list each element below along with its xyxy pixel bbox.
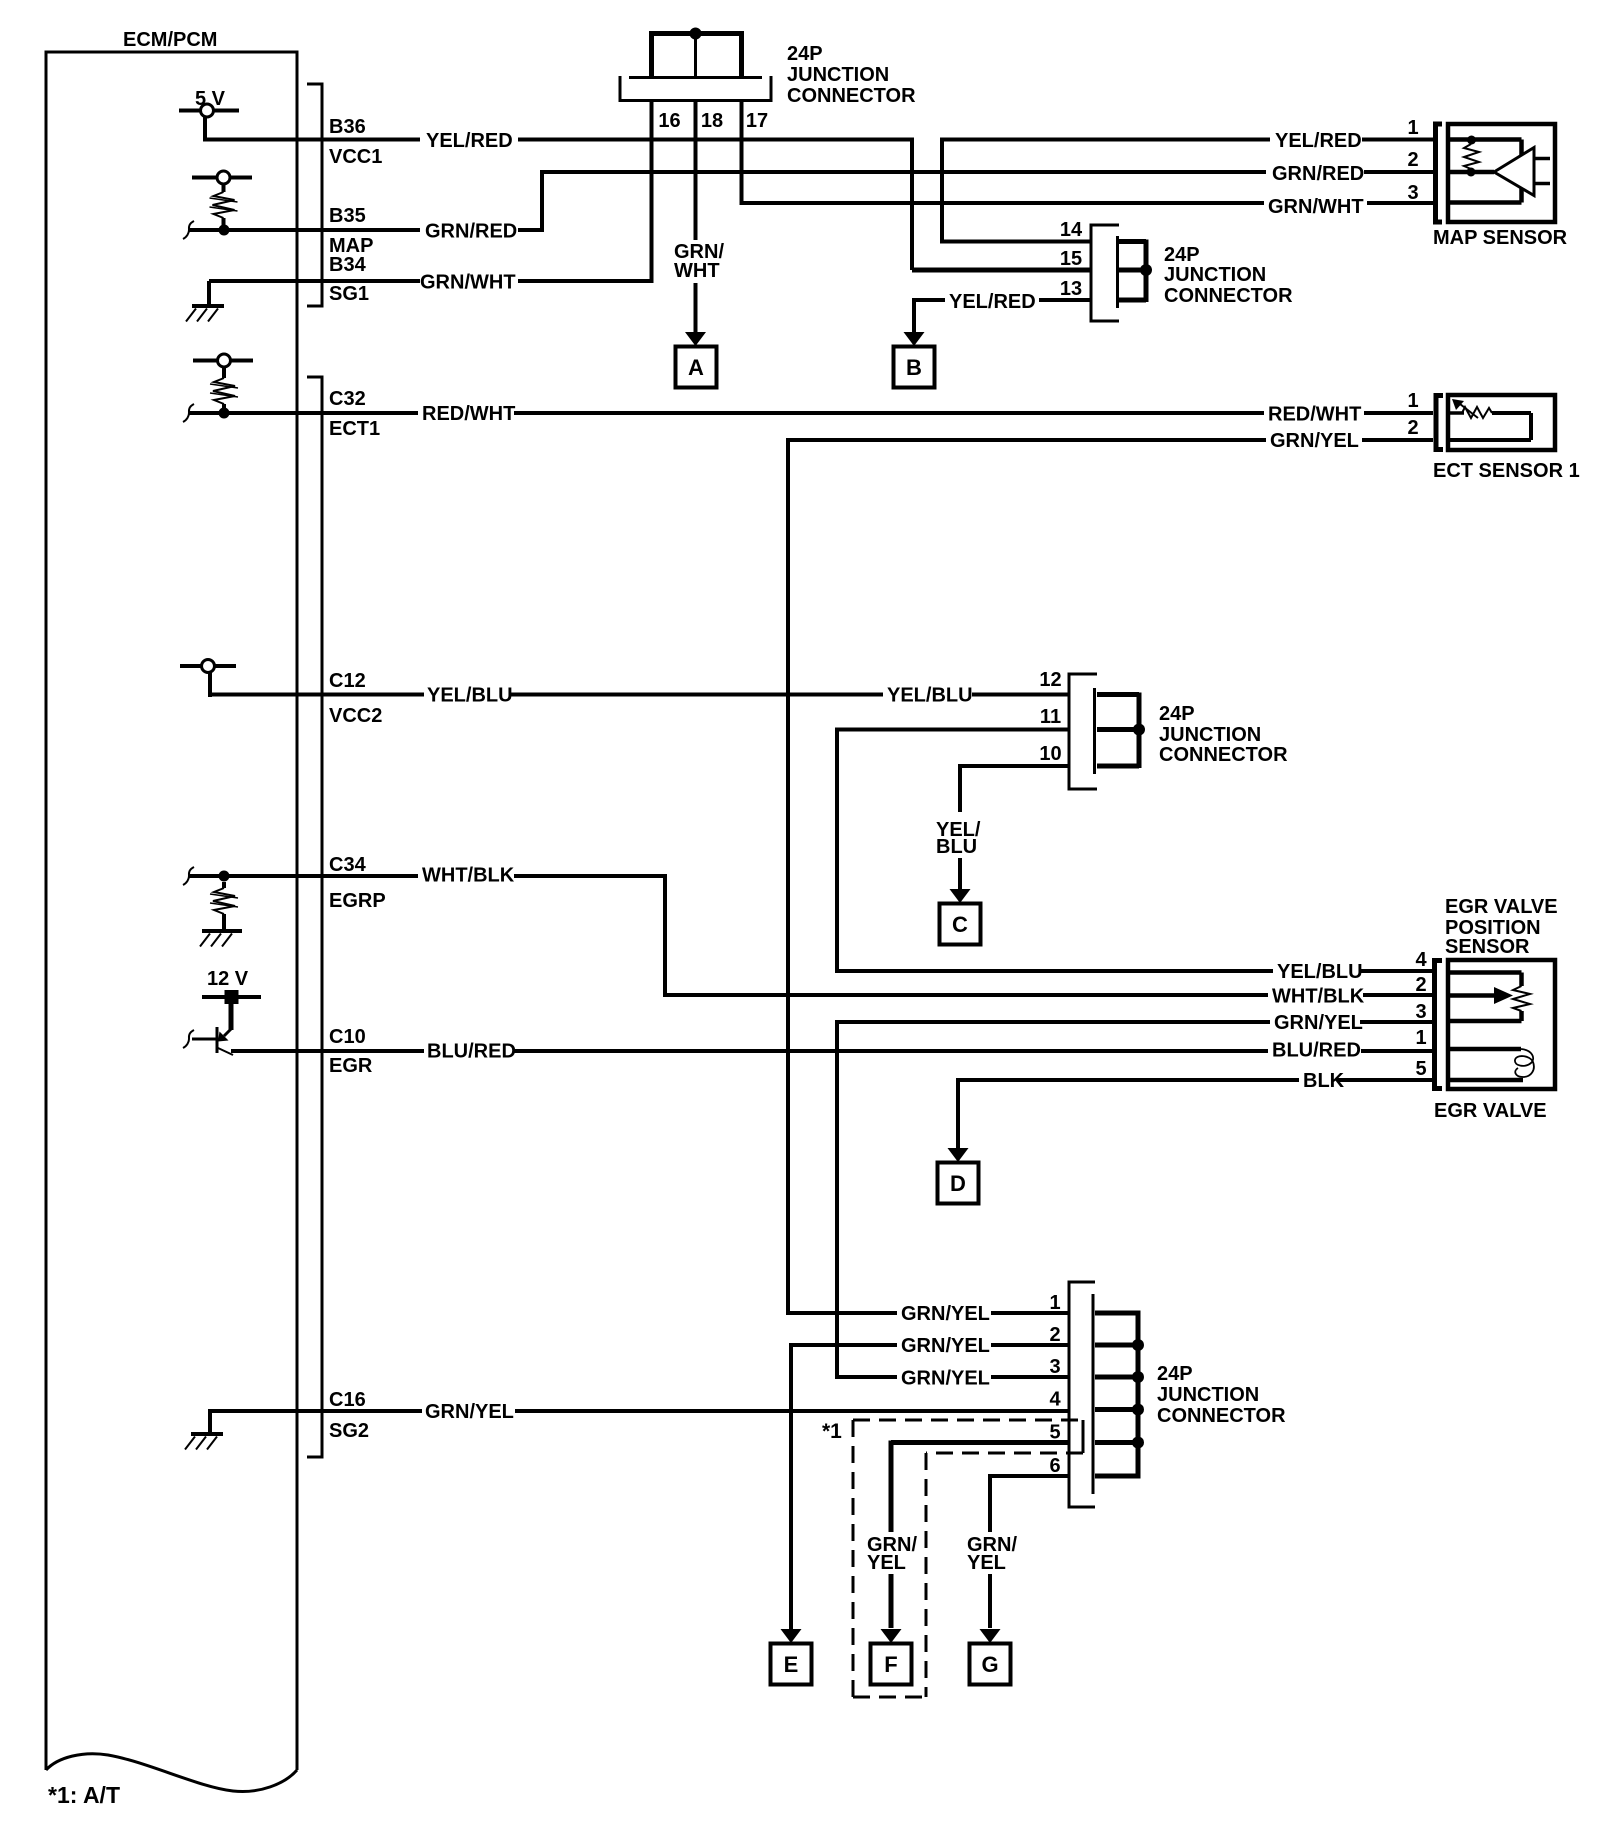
svg-text:24P: 24P	[787, 43, 823, 65]
svg-text:ECT1: ECT1	[329, 418, 380, 440]
svg-text:12 V: 12 V	[207, 968, 249, 990]
svg-text:VCC1: VCC1	[329, 146, 382, 168]
svg-text:C34: C34	[329, 854, 367, 876]
svg-text:YEL/RED: YEL/RED	[949, 291, 1036, 313]
svg-text:18: 18	[701, 110, 723, 132]
svg-text:ECM/PCM: ECM/PCM	[123, 29, 217, 51]
svg-text:SG2: SG2	[329, 1420, 369, 1442]
svg-text:2: 2	[1407, 149, 1418, 171]
svg-text:14: 14	[1060, 219, 1083, 241]
svg-text:B: B	[906, 355, 922, 380]
svg-text:BLU/RED: BLU/RED	[1272, 1040, 1361, 1062]
svg-text:1: 1	[1049, 1292, 1060, 1314]
svg-text:13: 13	[1060, 278, 1082, 300]
svg-text:BLU/RED: BLU/RED	[427, 1041, 516, 1063]
svg-text:G: G	[981, 1652, 998, 1677]
svg-text:16: 16	[658, 110, 680, 132]
svg-text:GRN/WHT: GRN/WHT	[1268, 196, 1364, 218]
svg-text:GRN/YEL: GRN/YEL	[901, 1335, 990, 1357]
svg-text:5: 5	[1415, 1058, 1426, 1080]
svg-text:RED/WHT: RED/WHT	[1268, 404, 1361, 426]
svg-text:C32: C32	[329, 388, 366, 410]
svg-text:3: 3	[1049, 1356, 1060, 1378]
svg-text:GRN/WHT: GRN/WHT	[420, 272, 516, 294]
svg-text:A: A	[688, 355, 704, 380]
svg-text:3: 3	[1415, 1001, 1426, 1023]
svg-text:GRN/RED: GRN/RED	[425, 221, 517, 243]
svg-text:3: 3	[1407, 182, 1418, 204]
svg-text:GRN/YEL: GRN/YEL	[901, 1303, 990, 1325]
svg-text:12: 12	[1039, 669, 1061, 691]
svg-text:YEL/BLU: YEL/BLU	[887, 685, 973, 707]
svg-text:E: E	[784, 1652, 799, 1677]
svg-text:*1: A/T: *1: A/T	[48, 1782, 120, 1808]
svg-text:GRN/YEL: GRN/YEL	[425, 1401, 514, 1423]
svg-text:B34: B34	[329, 254, 367, 276]
svg-text:EGR: EGR	[329, 1055, 373, 1077]
svg-text:B35: B35	[329, 205, 366, 227]
svg-text:GRN/YEL: GRN/YEL	[1274, 1012, 1363, 1034]
svg-text:24P: 24P	[1164, 244, 1200, 266]
svg-text:JUNCTION: JUNCTION	[1157, 1384, 1259, 1406]
svg-text:C12: C12	[329, 670, 366, 692]
svg-text:D: D	[950, 1171, 966, 1196]
svg-text:MAP SENSOR: MAP SENSOR	[1433, 227, 1568, 249]
svg-text:JUNCTION: JUNCTION	[1159, 724, 1261, 746]
svg-text:SG1: SG1	[329, 283, 369, 305]
svg-text:SENSOR: SENSOR	[1445, 936, 1530, 958]
svg-text:YEL: YEL	[967, 1552, 1006, 1574]
svg-text:2: 2	[1049, 1324, 1060, 1346]
svg-text:24P: 24P	[1157, 1363, 1193, 1385]
svg-text:2: 2	[1415, 974, 1426, 996]
svg-text:GRN/YEL: GRN/YEL	[901, 1368, 990, 1390]
svg-text:CONNECTOR: CONNECTOR	[1157, 1405, 1286, 1427]
svg-text:1: 1	[1415, 1027, 1426, 1049]
svg-text:YEL/RED: YEL/RED	[1275, 130, 1362, 152]
svg-text:1: 1	[1407, 117, 1418, 139]
svg-text:6: 6	[1049, 1455, 1060, 1477]
svg-text:*1: *1	[822, 1420, 842, 1443]
svg-text:F: F	[884, 1652, 897, 1677]
svg-text:4: 4	[1415, 949, 1427, 971]
svg-text:EGR VALVE: EGR VALVE	[1445, 896, 1558, 918]
svg-text:CONNECTOR: CONNECTOR	[1164, 285, 1293, 307]
svg-text:WHT: WHT	[674, 260, 720, 282]
svg-text:WHT/BLK: WHT/BLK	[422, 865, 515, 887]
svg-text:VCC2: VCC2	[329, 705, 382, 727]
svg-text:C: C	[952, 912, 968, 937]
svg-text:JUNCTION: JUNCTION	[787, 64, 889, 86]
svg-text:24P: 24P	[1159, 703, 1195, 725]
svg-text:YEL/RED: YEL/RED	[426, 130, 513, 152]
svg-text:4: 4	[1049, 1389, 1061, 1411]
svg-text:C10: C10	[329, 1026, 366, 1048]
svg-text:YEL: YEL	[867, 1552, 906, 1574]
svg-text:ECT SENSOR 1: ECT SENSOR 1	[1433, 460, 1580, 482]
svg-text:WHT/BLK: WHT/BLK	[1272, 986, 1365, 1008]
svg-text:10: 10	[1039, 743, 1061, 765]
svg-text:EGR VALVE: EGR VALVE	[1434, 1100, 1547, 1122]
svg-text:GRN/RED: GRN/RED	[1272, 163, 1364, 185]
svg-text:BLU: BLU	[936, 836, 977, 858]
svg-text:EGRP: EGRP	[329, 890, 386, 912]
svg-text:RED/WHT: RED/WHT	[422, 403, 515, 425]
svg-text:JUNCTION: JUNCTION	[1164, 264, 1266, 286]
svg-text:17: 17	[746, 110, 768, 132]
svg-text:C16: C16	[329, 1389, 366, 1411]
svg-text:2: 2	[1407, 417, 1418, 439]
svg-text:CONNECTOR: CONNECTOR	[787, 85, 916, 107]
svg-text:15: 15	[1060, 248, 1082, 270]
svg-text:1: 1	[1407, 390, 1418, 412]
svg-text:YEL/BLU: YEL/BLU	[427, 685, 513, 707]
svg-text:11: 11	[1040, 706, 1061, 728]
svg-text:B36: B36	[329, 116, 366, 138]
svg-text:YEL/BLU: YEL/BLU	[1277, 961, 1363, 983]
svg-text:CONNECTOR: CONNECTOR	[1159, 744, 1288, 766]
svg-text:GRN/YEL: GRN/YEL	[1270, 430, 1359, 452]
